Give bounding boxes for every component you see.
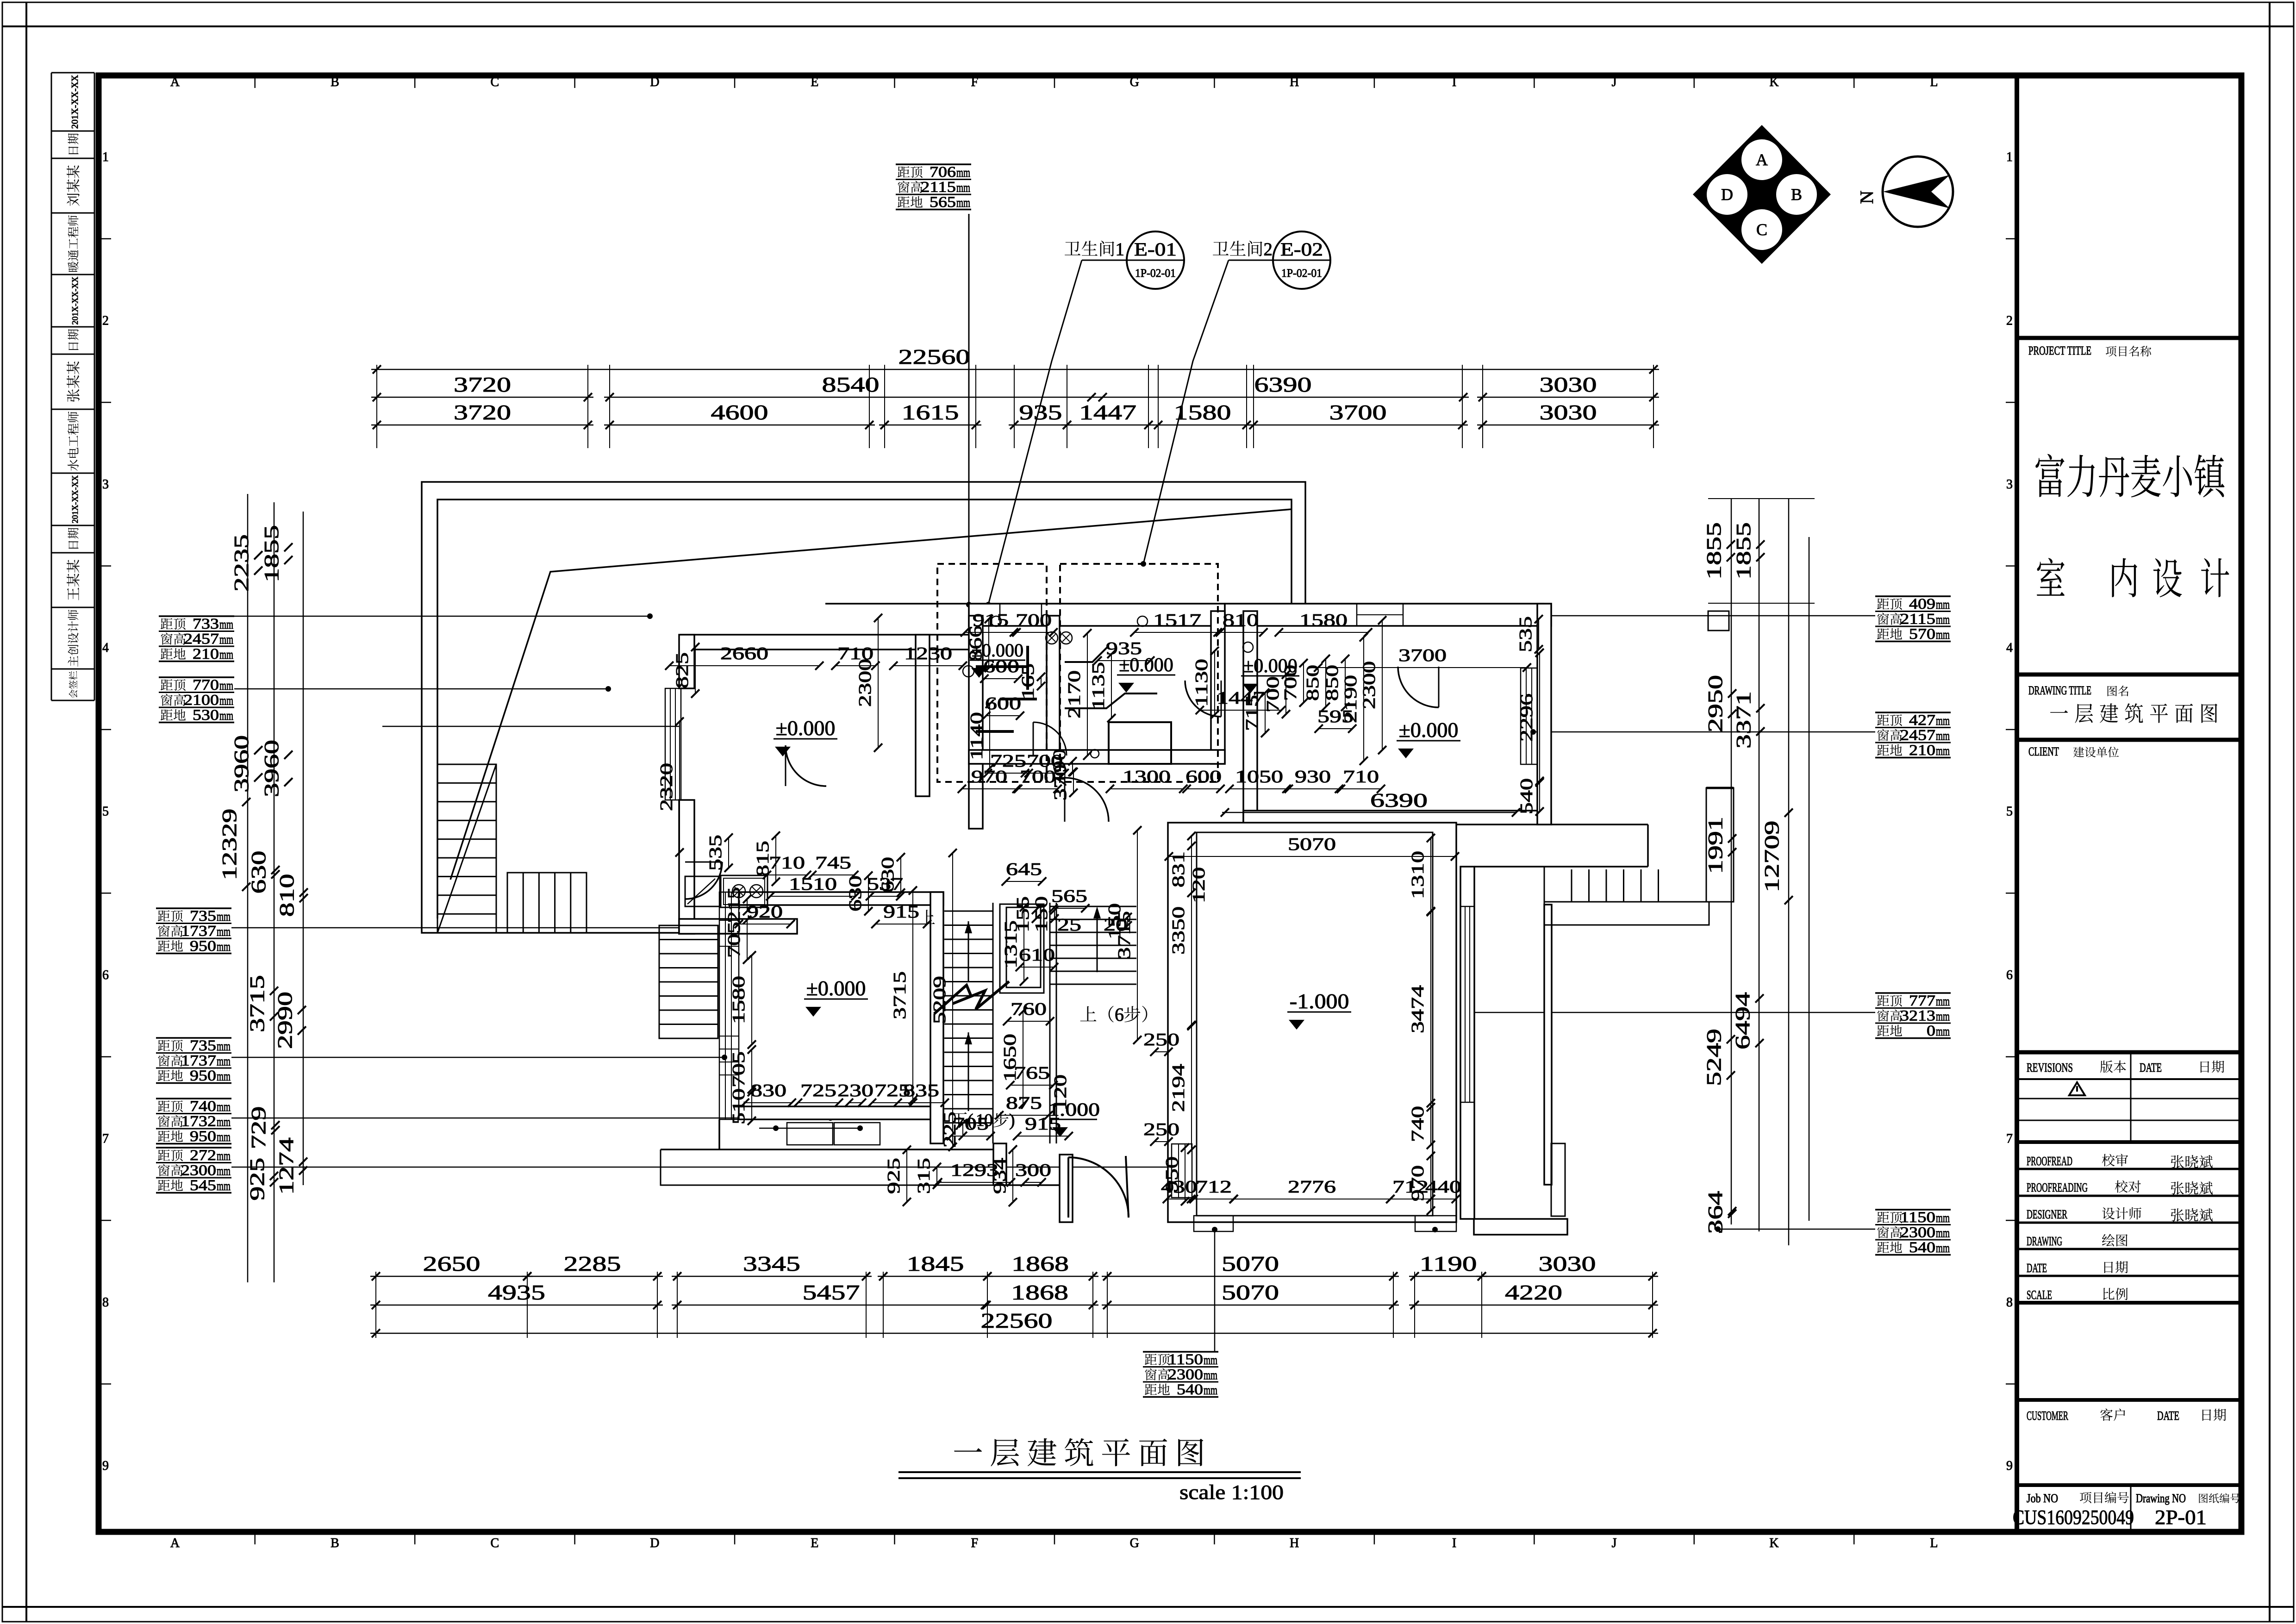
label block top (706): [896, 163, 971, 165]
bottom dimension chain row 1: [370, 1276, 533, 1277]
svg-text:mm: mm: [217, 939, 231, 954]
svg-text:Job NO: Job NO: [2027, 1492, 2058, 1505]
svg-text:CUS1609250049: CUS1609250049: [2013, 1506, 2134, 1529]
svg-text:364: 364: [1704, 1191, 1727, 1234]
svg-text:mm: mm: [217, 1069, 231, 1084]
svg-text:6: 6: [1115, 1004, 1124, 1025]
svg-text:950: 950: [190, 938, 216, 955]
project name 室内设计: [2037, 558, 2065, 596]
svg-text:370: 370: [1051, 764, 1070, 800]
page margin band lines: [25, 2, 27, 1622]
svg-text:540: 540: [1909, 1239, 1935, 1256]
living room top wall: [739, 892, 943, 905]
svg-text:1230: 1230: [904, 644, 952, 663]
svg-text:mm: mm: [217, 1039, 231, 1054]
svg-text:600: 600: [1185, 767, 1222, 787]
svg-text:2296: 2296: [1517, 693, 1536, 742]
svg-text:950: 950: [190, 1068, 216, 1084]
svg-text:210: 210: [193, 646, 219, 662]
svg-text:120: 120: [1051, 1074, 1070, 1111]
bath2 door arc: [1185, 681, 1221, 717]
svg-text:22560: 22560: [981, 1309, 1053, 1332]
svg-text:5209: 5209: [930, 976, 949, 1024]
bedroom2 bottom wall: [1243, 811, 1551, 824]
svg-text:250: 250: [1143, 1120, 1179, 1139]
svg-text:3030: 3030: [1540, 400, 1597, 424]
svg-text:12329: 12329: [218, 809, 241, 881]
svg-text:1: 1: [1116, 239, 1124, 259]
svg-text:760: 760: [1011, 999, 1047, 1019]
top chain extension lines: [376, 365, 377, 448]
leader line L5: [231, 1118, 830, 1119]
dashed zone bath2: [1060, 564, 1218, 782]
svg-text:mm: mm: [1936, 713, 1950, 728]
svg-text:1737: 1737: [181, 923, 216, 940]
svg-text:700: 700: [1016, 611, 1052, 630]
bath2 vanity: [1109, 722, 1171, 764]
svg-text:5070: 5070: [1288, 835, 1336, 854]
bedroom1 left wall lower: [679, 800, 694, 934]
bath1 left wall: [969, 616, 983, 764]
svg-text:L: L: [1930, 1536, 1938, 1550]
title block left edge: [2015, 75, 2019, 1532]
north arrow: [1883, 156, 1953, 227]
svg-text:201X-XX-XX: 201X-XX-XX: [70, 475, 80, 524]
svg-text:950: 950: [1162, 1156, 1182, 1193]
svg-text:K: K: [1769, 1536, 1778, 1550]
svg-text:3700: 3700: [1398, 646, 1447, 665]
svg-text:201X-XX-XX: 201X-XX-XX: [70, 277, 80, 325]
stair landing box: [1000, 904, 1044, 993]
svg-text:2950: 2950: [1704, 675, 1727, 732]
stair shaft right wall: [1049, 903, 1051, 1143]
svg-text:DATE: DATE: [2140, 1061, 2162, 1074]
svg-text:1P-02-01: 1P-02-01: [1281, 267, 1322, 280]
svg-text:3960: 3960: [230, 735, 253, 793]
svg-text:835: 835: [903, 1081, 939, 1100]
svg-text:1050: 1050: [1235, 767, 1283, 787]
svg-text:4935: 4935: [488, 1280, 545, 1304]
svg-text:C: C: [1756, 220, 1767, 239]
living room bottom window: [787, 1123, 833, 1145]
top window label leader: [968, 214, 970, 605]
svg-text:925: 925: [246, 1158, 268, 1201]
svg-text:2100: 2100: [184, 692, 219, 709]
svg-text:PROJECT TITLE: PROJECT TITLE: [2028, 344, 2091, 357]
svg-text:1: 1: [976, 1111, 985, 1130]
svg-text:mm: mm: [1936, 597, 1950, 612]
svg-text:729: 729: [247, 1106, 270, 1149]
svg-text:8: 8: [102, 1295, 109, 1310]
svg-text:2115: 2115: [921, 179, 956, 196]
svg-text:765: 765: [1014, 1063, 1050, 1083]
svg-text:K: K: [1769, 75, 1778, 89]
drawing title 一层建筑平面图: [954, 1448, 982, 1452]
garage bottom windows: [1194, 1216, 1233, 1231]
top dimension chain row 1: [371, 397, 593, 398]
right long vertical line: [1809, 537, 1810, 1221]
svg-text:2: 2: [2006, 313, 2013, 328]
svg-text:E-01: E-01: [1134, 239, 1177, 260]
svg-text:(: (: [967, 1111, 973, 1130]
svg-text:272: 272: [190, 1147, 216, 1164]
svg-text:1737: 1737: [181, 1053, 216, 1069]
bedroom1 window left: [665, 688, 681, 800]
right wing bottom wall: [1474, 1219, 1567, 1235]
svg-text:705: 705: [729, 1051, 749, 1087]
svg-text:230: 230: [837, 1081, 873, 1100]
svg-text:6494: 6494: [1731, 992, 1754, 1049]
label block R1 (409): [1875, 595, 1951, 597]
svg-text:1447: 1447: [1079, 400, 1136, 424]
label block R4 (1150): [1875, 1209, 1951, 1211]
house right exterior wall: [1537, 604, 1551, 824]
svg-text:6: 6: [102, 968, 109, 982]
svg-text:E-02: E-02: [1280, 239, 1323, 260]
svg-text:12709: 12709: [1760, 821, 1783, 893]
svg-text:815: 815: [753, 841, 773, 877]
svg-text:mm: mm: [219, 678, 233, 693]
bottom label leader: [1214, 1231, 1216, 1352]
entry door arc: [1068, 1157, 1129, 1218]
leader line L4: [231, 1057, 724, 1058]
svg-text:935: 935: [1106, 639, 1142, 658]
right wing step: [1551, 1143, 1565, 1216]
front wall upper face line: [825, 603, 1544, 605]
svg-text:565: 565: [1051, 887, 1087, 906]
svg-text:2: 2: [1264, 239, 1273, 259]
terrace stair horizontal run: [507, 873, 586, 933]
right wing east wall: [1544, 905, 1552, 1185]
bath2 right wall: [1211, 611, 1225, 764]
svg-text:831: 831: [1169, 851, 1188, 887]
thin interior line y1569: [382, 726, 679, 727]
svg-text:600: 600: [983, 657, 1019, 676]
main stair treads: [944, 911, 993, 912]
svg-text:mm: mm: [219, 708, 233, 723]
svg-text:2776: 2776: [1288, 1177, 1336, 1197]
svg-text:970: 970: [971, 767, 1007, 787]
top dimension chain row 0 (22560): [371, 369, 1659, 370]
living room left window wall: [719, 892, 739, 1119]
leader line R3: [1466, 1012, 1875, 1013]
svg-text:2300: 2300: [1360, 661, 1379, 709]
svg-text:PROOFREADING: PROOFREADING: [2027, 1181, 2088, 1194]
svg-text:1615: 1615: [902, 400, 959, 424]
label block R3 (777): [1875, 992, 1951, 994]
svg-text:8540: 8540: [822, 373, 880, 396]
project name 富力丹麦小镇: [2035, 454, 2064, 497]
svg-text:1510: 1510: [789, 874, 837, 894]
label block L3 (735): [156, 907, 231, 909]
svg-text:A: A: [1756, 150, 1768, 169]
garage left wall window: [1172, 1144, 1192, 1198]
stair shaft left wall: [930, 892, 943, 1143]
hall wall below bath1: [969, 764, 983, 829]
svg-text:934: 934: [990, 1158, 1010, 1194]
svg-text:B: B: [1791, 185, 1802, 204]
elevation compass diamond: [1693, 125, 1831, 264]
svg-text:427: 427: [1909, 712, 1935, 729]
svg-text:3720: 3720: [454, 400, 511, 424]
svg-text:777: 777: [1909, 993, 1935, 1009]
svg-text:810: 810: [275, 874, 298, 917]
svg-text:Drawing NO: Drawing NO: [2136, 1492, 2186, 1505]
svg-text:mm: mm: [217, 909, 231, 924]
svg-text:1150: 1150: [1900, 1209, 1935, 1226]
svg-text:F: F: [971, 1536, 978, 1550]
hall steps (6): [1050, 906, 1136, 907]
svg-text:): ): [1009, 1111, 1015, 1130]
svg-text:1315: 1315: [1001, 920, 1021, 968]
svg-text:mm: mm: [219, 693, 233, 708]
small circles fixtures: [991, 616, 1001, 626]
leader line L6: [231, 1167, 1185, 1168]
svg-text:5249: 5249: [1703, 1029, 1725, 1086]
svg-text:3030: 3030: [1539, 1252, 1596, 1275]
svg-text:535: 535: [1516, 616, 1535, 652]
svg-text:1135: 1135: [1089, 662, 1108, 710]
svg-text:5457: 5457: [803, 1280, 860, 1304]
svg-text:710: 710: [1343, 767, 1379, 787]
svg-text:920: 920: [747, 902, 783, 922]
revision warning triangle: [2069, 1082, 2085, 1095]
svg-text:6390: 6390: [1254, 373, 1312, 396]
svg-text:I: I: [1452, 1536, 1456, 1550]
bottom dimension chain row 2: [370, 1305, 663, 1306]
svg-text:850: 850: [1303, 665, 1323, 701]
living room window hatches: [719, 907, 739, 908]
svg-text:4220: 4220: [1505, 1280, 1562, 1304]
svg-text:1: 1: [102, 150, 109, 164]
bath2 shower: [1065, 646, 1109, 662]
svg-text:1868: 1868: [1011, 1280, 1068, 1304]
revisions divider: [2130, 1052, 2132, 1142]
svg-text:830: 830: [750, 1081, 786, 1100]
svg-text:150: 150: [1032, 896, 1051, 932]
svg-text:875: 875: [1006, 1093, 1042, 1113]
bedroom1 right wall: [916, 635, 930, 796]
svg-text:20: 20: [1104, 915, 1128, 935]
svg-text:mm: mm: [217, 1054, 231, 1069]
bedroom1 bottom wall (kitchen): [679, 919, 797, 934]
svg-text:950: 950: [190, 1128, 216, 1145]
leader line L1: [234, 616, 650, 617]
svg-text:±0.000: ±0.000: [1399, 718, 1459, 742]
svg-text:1517: 1517: [1153, 611, 1201, 630]
svg-text:1855: 1855: [1732, 522, 1755, 580]
svg-text:630: 630: [846, 875, 865, 912]
svg-text:510: 510: [729, 1088, 749, 1124]
svg-text:1300: 1300: [1123, 767, 1171, 787]
svg-text:scale 1:100: scale 1:100: [1179, 1481, 1284, 1504]
svg-text:770: 770: [193, 677, 219, 693]
svg-text:850: 850: [1323, 665, 1342, 701]
svg-text:3345: 3345: [743, 1252, 800, 1275]
svg-text:E: E: [811, 1536, 818, 1550]
label block bottom (1150): [1143, 1351, 1218, 1353]
svg-text:7: 7: [2006, 1131, 2013, 1146]
svg-text:G: G: [1130, 75, 1139, 89]
svg-text:1190: 1190: [1420, 1252, 1477, 1275]
svg-text:825: 825: [673, 652, 692, 688]
svg-text:SCALE: SCALE: [2027, 1288, 2052, 1302]
svg-text:733: 733: [193, 616, 219, 632]
elevation bubble E-02: [1273, 231, 1330, 289]
svg-text:mm: mm: [217, 1149, 231, 1163]
svg-text:CLIENT: CLIENT: [2028, 745, 2059, 758]
right mid window: [1460, 906, 1474, 1102]
svg-text:600: 600: [985, 694, 1021, 713]
svg-text:2320: 2320: [657, 763, 676, 811]
svg-text:1310: 1310: [1408, 851, 1428, 899]
interior dimension lines (auto): [669, 665, 819, 666]
svg-text:1845: 1845: [907, 1252, 964, 1275]
left vertical dim chain x=655: [303, 512, 304, 1185]
svg-text:C: C: [491, 75, 499, 89]
dashed zone bath1: [937, 564, 1047, 782]
svg-text:mm: mm: [956, 195, 970, 210]
svg-text:mm: mm: [1936, 994, 1950, 1009]
bedroom1 door arc: [786, 745, 826, 786]
garage inner wall: [1197, 832, 1433, 1216]
svg-text:215: 215: [724, 887, 744, 923]
svg-text:H: H: [1290, 1536, 1299, 1550]
hall bottom step: [661, 1149, 993, 1185]
svg-text:DATE: DATE: [2157, 1409, 2179, 1423]
svg-text:0: 0: [1927, 1023, 1935, 1039]
svg-text:915: 915: [1025, 1114, 1061, 1134]
svg-text:2300: 2300: [181, 1162, 216, 1179]
svg-text:1580: 1580: [1174, 400, 1231, 424]
title block horizontal rules: [2019, 336, 2241, 340]
bath1 door arc: [1033, 722, 1067, 756]
svg-text:mm: mm: [217, 1099, 231, 1114]
svg-text:2235: 2235: [230, 534, 253, 592]
svg-text:mm: mm: [1936, 627, 1950, 642]
right vertical dim chain x=3864: [1788, 498, 1790, 1245]
bedroom2 door arc: [1398, 667, 1439, 707]
top dimension chain row 2: [371, 425, 593, 426]
left garden stair: [659, 925, 718, 1038]
right stair newel: [1706, 788, 1734, 902]
svg-text:H: H: [1290, 75, 1299, 89]
svg-text:mm: mm: [1936, 743, 1950, 758]
svg-text:3213: 3213: [1900, 1008, 1935, 1024]
kitchen counter: [685, 876, 720, 906]
svg-text:J: J: [1612, 75, 1617, 89]
main stair break line: [934, 981, 1009, 1014]
stair direction texts: [1080, 1006, 1097, 1021]
svg-text:645: 645: [1006, 860, 1042, 879]
bedroom2 dim 6390 line: [1222, 812, 1516, 813]
svg-text:±0.000: ±0.000: [806, 976, 866, 1000]
E-02 leader: [1143, 260, 1229, 564]
svg-text:DESIGNER: DESIGNER: [2027, 1207, 2067, 1221]
svg-text:3371: 3371: [1732, 691, 1755, 749]
svg-text:mm: mm: [956, 165, 970, 180]
svg-text:712: 712: [1196, 1177, 1232, 1197]
svg-text:B: B: [331, 1536, 339, 1550]
svg-text:mm: mm: [217, 1130, 231, 1144]
svg-text:1150: 1150: [1168, 1351, 1203, 1368]
garage outer wall: [1168, 823, 1456, 1222]
svg-text:mm: mm: [217, 1115, 231, 1130]
svg-text:J: J: [1612, 1536, 1617, 1550]
front wall bath block: [969, 604, 1225, 626]
svg-text:F: F: [971, 75, 978, 89]
right vertical dim chain x=3800: [1759, 499, 1760, 1231]
svg-text:915: 915: [883, 902, 919, 922]
svg-text:B: B: [331, 75, 339, 89]
svg-text:mm: mm: [219, 632, 233, 647]
svg-text:3474: 3474: [1408, 985, 1428, 1033]
svg-text:440: 440: [1425, 1177, 1461, 1197]
svg-text:540: 540: [1517, 778, 1536, 814]
bath1 interior partitions: [976, 665, 1028, 668]
title block right edge reinforcing: [2239, 75, 2245, 1532]
svg-text:DRAWING: DRAWING: [2027, 1234, 2062, 1248]
svg-text:I: I: [1452, 75, 1456, 89]
svg-text:9: 9: [2006, 1459, 2013, 1473]
title underline double: [898, 1471, 1301, 1473]
svg-text:2457: 2457: [1900, 727, 1935, 744]
svg-text:409: 409: [1909, 596, 1935, 612]
svg-text:715: 715: [1242, 695, 1262, 731]
bedroom2 left wall: [1243, 611, 1257, 824]
svg-text:mm: mm: [217, 1179, 231, 1193]
svg-text:2650: 2650: [423, 1252, 480, 1275]
svg-text:712: 712: [1392, 1177, 1429, 1197]
label block L2 (770): [159, 676, 234, 678]
svg-text:mm: mm: [956, 181, 970, 195]
svg-text:2300: 2300: [1900, 1224, 1935, 1241]
hall door arc below bath: [1065, 778, 1109, 822]
terrace stair vertical run: [437, 764, 496, 933]
svg-text:706: 706: [930, 164, 956, 181]
svg-text:REVISIONS: REVISIONS: [2027, 1061, 2073, 1074]
svg-text:mm: mm: [1936, 1241, 1950, 1255]
svg-text:2457: 2457: [184, 631, 219, 648]
svg-text:930: 930: [1295, 767, 1331, 787]
svg-text:2300: 2300: [855, 659, 875, 707]
svg-text:1580: 1580: [1299, 611, 1348, 630]
signature strip (left): [51, 73, 52, 700]
label block L5 (740): [156, 1098, 231, 1099]
front wall bedroom2: [1225, 604, 1551, 626]
label block R2 (427): [1875, 712, 1951, 713]
right wing top walls: [1551, 824, 1648, 825]
svg-text:mm: mm: [217, 1164, 231, 1179]
svg-text:595: 595: [1317, 707, 1354, 726]
svg-text:210: 210: [1909, 742, 1935, 759]
svg-text:866: 866: [966, 625, 986, 662]
svg-text:3350: 3350: [1169, 906, 1188, 955]
svg-text:545: 545: [190, 1177, 216, 1194]
svg-text:mm: mm: [1204, 1383, 1217, 1398]
svg-text:700: 700: [1281, 665, 1300, 701]
leader line R1: [1382, 615, 1875, 617]
left vertical dim chain x=535: [247, 494, 249, 1282]
svg-text:mm: mm: [1204, 1368, 1217, 1383]
svg-text:925: 925: [884, 1158, 904, 1194]
bath lights: [1046, 632, 1058, 644]
right outdoor stair: [1571, 869, 1572, 902]
svg-text:mm: mm: [219, 617, 233, 632]
svg-text:3030: 3030: [1540, 373, 1597, 396]
leader line R2: [1533, 731, 1875, 733]
right mid exterior wall: [1460, 867, 1474, 1219]
